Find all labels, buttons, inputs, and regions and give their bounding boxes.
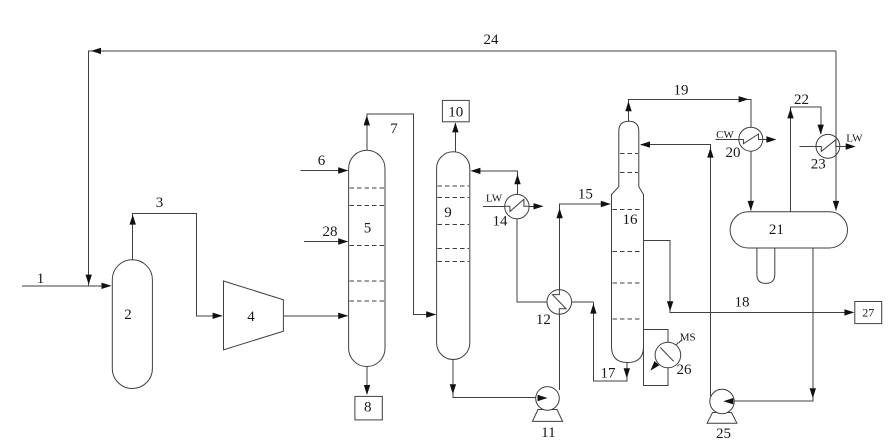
wire LW inlet exchanger 14 [483, 205, 505, 207]
arrow into box 10 [452, 122, 458, 132]
wire MS tail exchanger 26 [675, 340, 682, 345]
svg-text:9: 9 [444, 205, 452, 221]
svg-text:LW: LW [486, 192, 503, 204]
svg-text:10: 10 [448, 105, 463, 121]
arrow stream 18 into box 27 [844, 309, 854, 315]
svg-text:15: 15 [578, 187, 593, 203]
arrow up on stream 15 riser [556, 208, 562, 218]
svg-text:2: 2 [124, 307, 132, 323]
arrow stream 24 left [91, 48, 101, 54]
arrow drum bottoms down [810, 388, 816, 398]
wire CW inlet exchanger 20 [716, 139, 739, 141]
arrow suction into pump 11 [538, 395, 548, 401]
svg-text:27: 27 [862, 306, 874, 320]
svg-text:28: 28 [323, 224, 338, 240]
arrow into box 8 [364, 385, 370, 395]
arrow stream 22 up [787, 108, 793, 118]
wire compressor 4 outlet to column 5 [283, 315, 347, 317]
vessel 2 [112, 260, 152, 389]
wire stream 7 column 5 top to column 9 [367, 114, 436, 315]
drum 21 boot [757, 248, 775, 283]
trays column 9 [438, 186, 469, 262]
arrow stream 17 down [624, 368, 630, 378]
arrow return into column 9 top [470, 168, 480, 174]
arrow stream 24 down at feed junction [86, 275, 92, 285]
arrow condensate into drum 21 [748, 201, 754, 211]
wire drum 21 bottoms to pump 25 [734, 248, 813, 401]
wire column 5 bottoms to box 8 [366, 367, 368, 395]
pump 25 [707, 413, 737, 424]
arrow stream 3 into compressor 4 [213, 313, 223, 319]
wire exchanger 14 bottom to exchanger 12 left [517, 219, 547, 302]
svg-text:17: 17 [601, 366, 617, 382]
svg-text:23: 23 [811, 157, 826, 173]
svg-text:19: 19 [674, 82, 689, 98]
arrow stream 19 right [739, 96, 749, 102]
wire LW outlet exchanger 14 [529, 205, 534, 207]
column 9 [437, 152, 470, 360]
arrow stream 19 up [625, 101, 631, 111]
box 27 [855, 302, 882, 324]
pump 11 [532, 410, 562, 422]
exchanger 23 [816, 134, 840, 158]
wire stream 24 recycle top line [89, 51, 836, 285]
svg-text:5: 5 [364, 221, 372, 237]
wire pump 11 discharge to exchanger 12 [558, 314, 560, 390]
arrow stream 24 down into drum 21 [833, 201, 839, 211]
arrow stream 22 into exchanger 23 [818, 125, 824, 135]
wire exchanger 12 right to node [572, 301, 594, 303]
column 5 [349, 150, 385, 366]
wire LW outlet exchanger 23 [840, 146, 846, 148]
wire column 9 top to box 10 [454, 123, 456, 152]
column 16 [612, 121, 644, 362]
svg-text:8: 8 [364, 400, 372, 416]
trays column 5 [350, 188, 384, 301]
arrow stream 1 into vessel 2 [102, 283, 112, 289]
wire exchanger 20 to drum 21 [750, 151, 752, 210]
svg-text:CW: CW [716, 129, 734, 141]
arrow stream 3 up [130, 215, 136, 225]
svg-text:7: 7 [390, 121, 398, 137]
wire LW inlet exchanger 23 [800, 146, 817, 148]
svg-text:18: 18 [735, 295, 750, 311]
wire CW outlet exchanger 20 [763, 139, 767, 141]
svg-text:MS: MS [680, 331, 696, 343]
arrow stream 6 into column 5 [338, 167, 348, 173]
wire stream 15 riser to column 16 [560, 204, 610, 290]
exchanger 20 [739, 127, 763, 151]
wire stream 3 vessel 2 to compressor 4 [133, 214, 222, 316]
wire reboiler loop column 16 [644, 330, 668, 386]
svg-text:4: 4 [247, 309, 255, 325]
arrow LW out of exchanger 23 [846, 143, 856, 149]
arrow compressor outlet into column 5 [338, 313, 348, 319]
arrow reflux up [707, 148, 713, 158]
wire reflux pump 25 to column 16 top [641, 144, 710, 396]
svg-text:6: 6 [318, 153, 326, 169]
svg-text:16: 16 [623, 212, 639, 228]
svg-text:12: 12 [536, 312, 551, 328]
wire stream 17 column 16 bottoms [593, 302, 626, 381]
arrow up on riser to exchanger 14 [514, 174, 520, 184]
wire stream 18 to box 27 [644, 241, 845, 313]
arrow column 9 bottoms down [450, 384, 456, 394]
exchanger 14 [505, 194, 529, 218]
svg-text:21: 21 [769, 222, 784, 238]
arrow MS out of exchanger 26 [650, 361, 659, 371]
compressor 4 [224, 281, 284, 350]
wire stream 19 column 16 top to condenser 20 [629, 99, 752, 127]
svg-text:24: 24 [484, 32, 500, 48]
wire stream 22 drum 21 to exchanger 23 [791, 107, 821, 212]
box 10 [442, 100, 469, 121]
arrow up on stream 17 riser [590, 304, 596, 314]
svg-text:25: 25 [716, 426, 731, 442]
wire return from exchanger 14 to column 9 top [480, 171, 518, 195]
arrow stream 7 into column 9 [426, 311, 436, 317]
svg-text:1: 1 [37, 271, 45, 287]
wire stream 24 right vertical into drum 21 [835, 51, 837, 211]
svg-text:11: 11 [541, 425, 555, 441]
svg-text:20: 20 [726, 145, 741, 161]
svg-text:14: 14 [493, 213, 509, 229]
wire column 9 bottoms to pump 11 [453, 360, 538, 398]
arrow LW out of exchanger 14 [534, 203, 544, 209]
box 8 [355, 396, 382, 420]
arrow stream 7 up [364, 115, 370, 125]
svg-text:3: 3 [156, 195, 164, 211]
arrow suction into pump 25 [723, 398, 733, 404]
wire stream 24 vertical crossing exchanger 23 [835, 133, 837, 160]
drum 21 [730, 212, 847, 248]
arrow stream 28 into column 5 [338, 238, 348, 244]
wire stream 6 [301, 170, 348, 172]
arrow stream 15 into column 16 [601, 201, 611, 207]
trays column 16 [613, 153, 643, 319]
wire stream 1 feed [22, 285, 111, 287]
svg-text:22: 22 [794, 92, 809, 108]
svg-text:26: 26 [677, 362, 693, 378]
arrow CW out of exchanger 20 [766, 136, 776, 142]
exchanger 26 [655, 342, 681, 368]
svg-text:LW: LW [846, 132, 863, 144]
arrow reflux into column 16 [640, 141, 650, 147]
arrow stream 18 down [667, 301, 673, 311]
wire stream 28 [304, 241, 347, 243]
exchanger 12 [547, 290, 572, 315]
